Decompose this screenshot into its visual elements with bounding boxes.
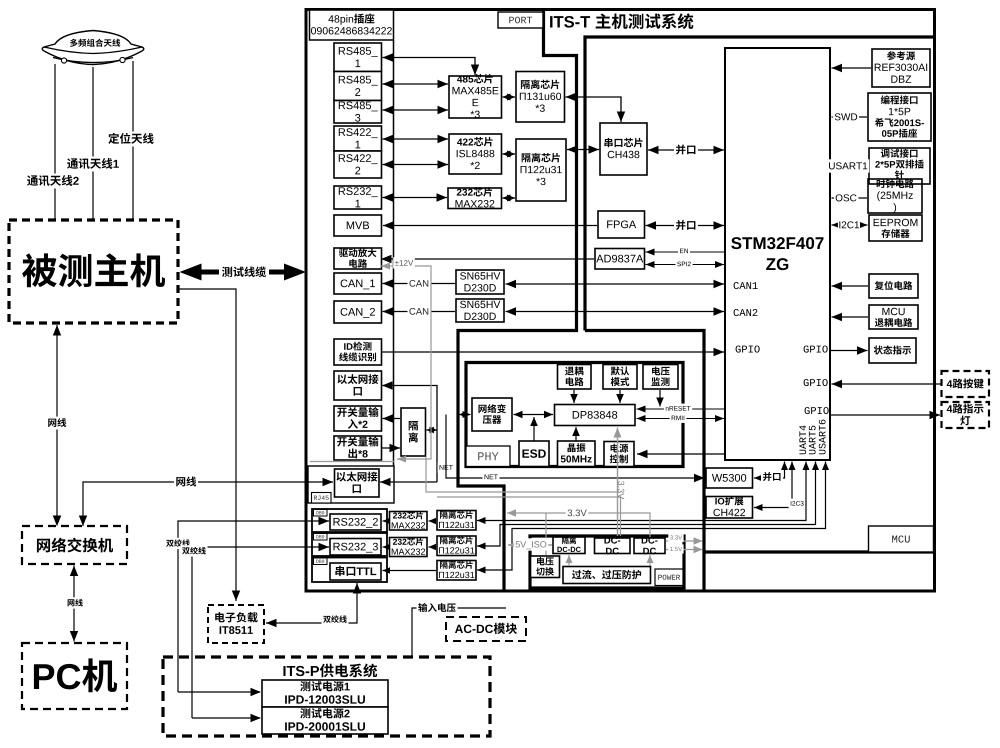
wire RS485_2 to MAX485E: [383, 80, 449, 88]
AD9837A: [595, 249, 645, 270]
multi-band antenna 多频组合天线: [42, 31, 144, 65]
wire MAX232 to isolation2: [503, 195, 516, 202]
wire host to switch 网线: [53, 325, 61, 525]
gray dcdc out 1.5V: [666, 546, 703, 553]
CAN transceiver 2 SN65HVD230D: [456, 299, 504, 322]
wire ethernet2 NET: [380, 478, 437, 486]
label 并口 W5300: [761, 471, 783, 484]
antenna lead 2: [92, 67, 94, 219]
label 通讯天线1: [65, 157, 120, 172]
wire NET to isolation block: [427, 427, 438, 433]
voltage monitor 电压监测: [643, 365, 678, 390]
isolation chip 1 П131u60: [516, 72, 565, 123]
wire CAN1 SN65 to STM32: [506, 280, 725, 288]
network transformer 网络变压器: [472, 398, 512, 431]
antenna lead 3: [132, 61, 134, 219]
power section: [530, 536, 684, 588]
label SWD: [833, 110, 859, 123]
programming port 编程接口: [868, 93, 931, 141]
mcu section: [585, 37, 934, 591]
PORT tag: [498, 12, 543, 28]
label NET 2: [483, 472, 500, 482]
title step: [458, 10, 577, 592]
test power supply 1 IPD-12003SLU: [262, 680, 388, 707]
clock circuit 25MHz: [868, 179, 922, 213]
reset circuit 复位电路: [869, 274, 918, 298]
wire CAN_2 to SN65 2: [383, 307, 456, 316]
PHY chip DP83848: [555, 405, 636, 426]
label nRESET: [664, 404, 692, 414]
wire twisted pair to RS232_2: [178, 517, 329, 692]
label 网线 horizontal: [174, 475, 198, 489]
test power supply 2 IPD-20001SLU: [262, 707, 388, 734]
MCU decoupling 退耦电路: [869, 305, 918, 329]
label OSC: [834, 191, 859, 204]
isolation chip П122u31 a: [437, 511, 476, 531]
wire isolation to switch input: [383, 414, 401, 423]
wire STM32 to power control: [637, 450, 725, 458]
label EN: [678, 246, 690, 256]
wire host to electronic load: [178, 289, 240, 601]
arrow into test supply 1: [178, 691, 260, 693]
MCU STM32F407ZG: [725, 48, 830, 460]
wire isolation chips b to MAX232 b: [429, 544, 437, 550]
gray 5V_ISO: [508, 541, 552, 549]
RJ45 compartment: [308, 466, 394, 503]
DC-DC converter 1: [595, 537, 631, 554]
232 chip MAX232: [448, 187, 502, 208]
wire ID detect GPIO to STM32: [382, 348, 724, 356]
wire MAX232 b to RS232_3: [383, 544, 391, 550]
PC text: [34, 658, 117, 692]
label I2C1: [838, 219, 860, 230]
PC 机 dashed: [22, 643, 127, 709]
arrow into network switch from host: [53, 516, 61, 527]
wire GPIO from keys: [832, 380, 941, 388]
pin label GPIO left: [736, 345, 760, 352]
RS232_3 compartment: [312, 533, 387, 556]
pin label CAN1: [734, 282, 758, 289]
485 chip MAX485E: [449, 74, 502, 118]
label +-12V: [393, 257, 415, 268]
network switch text: [37, 538, 113, 553]
serial chip CH438: [600, 123, 647, 175]
wire IO expander I2C3: [754, 462, 796, 512]
wire RS485_3 to MAX485E: [383, 106, 449, 114]
wire decoupling to DP: [570, 390, 578, 403]
arrow into test supply 2: [192, 717, 260, 719]
port RS485_2: [334, 72, 382, 101]
232 chip MAX232 lower 2: [390, 537, 428, 556]
DB9 tag 2: [314, 534, 328, 541]
DC-DC converter 2: [634, 537, 665, 554]
wire switch to PC 网线: [70, 566, 78, 642]
label 通讯天线2: [25, 174, 80, 189]
wire ESD up: [530, 417, 538, 441]
overcurrent protection 过流、过压防护: [563, 567, 651, 584]
pin label UART4: [799, 426, 806, 455]
gray feed 1: [426, 457, 617, 492]
wire LAN to ethernet2 网线: [79, 478, 333, 526]
wire ISL8488 to isolation2: [503, 151, 516, 158]
label USART1: [827, 159, 870, 172]
switch input 开关量输入*2: [334, 406, 382, 431]
wire SPI2: [646, 261, 725, 268]
label 双绞线 3: [322, 614, 349, 625]
ethernet port 1 以太网接口: [334, 371, 382, 400]
wire reset to STM32: [832, 282, 869, 290]
wire USART1 debug port: [831, 165, 868, 167]
serial TTL compartment: [312, 558, 387, 583]
gray feed 2: [437, 497, 621, 536]
wire RS422_2 to ISL8488: [383, 160, 449, 169]
gray 3.3V rail: [507, 509, 650, 537]
wire crystal to DP: [572, 427, 580, 441]
wire isolation chips a to MAX232 a: [429, 518, 437, 524]
crystal 晶振 50MHz: [558, 441, 596, 467]
power control 电源控制: [604, 442, 634, 467]
422 chip ISL8488: [449, 134, 502, 174]
wire NET to W5300: [446, 415, 705, 483]
wire default mode to DP: [616, 390, 624, 403]
isolated DC-DC 隔离DC-DC: [553, 537, 585, 554]
title text ITS-T 主机测试系统: [550, 13, 693, 29]
wire twisted pair to RS232_3: [192, 543, 329, 718]
wire RS232_1 to MAX232: [383, 193, 448, 202]
label RMII: [670, 413, 687, 423]
port CAN_2: [334, 301, 382, 323]
wire RS485_1 to MAX485E: [383, 53, 480, 75]
wire CAN2 SN65 to STM32: [506, 307, 725, 316]
48pin column divider: [393, 40, 395, 466]
label 网线 vertical wire: [46, 417, 68, 430]
RJ45 tag: [312, 493, 332, 504]
driver amplifier 驱动放大电路: [334, 248, 382, 269]
wire EN from STM32 to AD9837A: [646, 249, 726, 256]
wire isolation2 to CH438: [567, 145, 599, 154]
W5300 ethernet chip: [706, 468, 753, 488]
POWER tag: [655, 569, 683, 586]
port 串口TTL: [330, 563, 381, 580]
isolation chip П122u31 b: [437, 536, 476, 556]
wire AD9837A to driver: [381, 255, 594, 263]
wire GPIO to status: [831, 346, 868, 355]
label 并口 CH438: [674, 143, 698, 157]
default mode 默认模式: [603, 365, 637, 390]
48pin socket header: [310, 10, 394, 40]
IO expander CH422: [706, 496, 753, 518]
wire section edge to transformer: [459, 411, 471, 418]
wire GPIO to lamps: [831, 411, 940, 419]
reference source REF3030AIDBZ: [872, 49, 930, 87]
DUT host text 被测主机: [22, 253, 165, 287]
port RS485_1: [334, 43, 382, 72]
wire I2C1 EEPROM: [832, 221, 868, 229]
wire RS422_1 to ISL8488: [383, 135, 449, 143]
port RS232_2: [330, 514, 381, 530]
network switch 网络交换机 dashed: [22, 526, 127, 564]
wire input voltage: [412, 608, 506, 657]
wire UART4: [477, 462, 810, 525]
gray to voltage switch: [545, 513, 547, 555]
switch output 开关量输出*8: [334, 436, 382, 460]
pin label USART6: [819, 420, 826, 455]
wire isolation1 to CH438: [566, 93, 626, 122]
electronic load 电子负载 IT8511 dashed: [208, 605, 264, 643]
port RS422_1: [334, 126, 382, 151]
label 3.3V rail: [566, 507, 589, 520]
port RS232_1: [334, 186, 382, 209]
label 双绞线 1: [165, 538, 192, 549]
wire MCU decoupling to STM32: [832, 313, 869, 321]
wire isolation chip c to TTL: [383, 567, 437, 574]
FPGA: [598, 211, 645, 238]
gray protection to isolated dcdc: [566, 555, 573, 566]
voltage switch 电压切换: [531, 556, 560, 578]
port RS422_2: [334, 151, 382, 178]
ESD protection: [519, 441, 549, 467]
phy section: [466, 363, 683, 467]
pin label GPIO right 2: [804, 379, 828, 386]
AC-DC module dashed: [446, 617, 526, 641]
label 输入电压: [417, 602, 458, 615]
wire OSC clock: [832, 194, 868, 202]
wire switch output to isolation: [382, 444, 400, 452]
gray protection to dcdc2: [647, 555, 654, 566]
wire MAX485E to isolation1: [503, 94, 516, 101]
ITS-P power system dashed: [163, 657, 490, 736]
label CAN 1: [408, 277, 431, 290]
pin label UART5: [809, 426, 816, 455]
wire USART6: [477, 462, 829, 574]
label 网线 switch-PC: [66, 597, 85, 608]
RS232_2 compartment: [312, 509, 387, 532]
DB9 tag 3: [314, 558, 328, 565]
wire W5300 parallel to STM32: [754, 462, 788, 482]
debug port 调试接口: [869, 148, 930, 184]
label 5V_ISO: [514, 538, 549, 550]
4-way indicator 4路指示灯 dashed: [942, 402, 990, 428]
antenna lead 1: [54, 64, 56, 219]
isolation chip П122u31 c: [437, 561, 476, 581]
isolation block 隔离: [401, 408, 426, 456]
isolation chip 2 П122u31: [516, 139, 566, 201]
PHY tag: [466, 446, 510, 467]
232 chip MAX232 lower 1: [390, 511, 428, 530]
STM32F407ZG label: [731, 237, 823, 270]
label out 3.3V: [668, 533, 683, 542]
wire vmonitor down: [656, 390, 664, 407]
outer frame ITS-T test system box: [306, 10, 935, 592]
wire FPGA parallel port to STM32: [646, 221, 725, 230]
label 并口 FPGA: [674, 219, 698, 233]
label CAN 2: [408, 305, 431, 318]
status indicator 状态指示: [869, 338, 916, 363]
label 3.3V vertical: [618, 481, 624, 499]
label 定位天线: [107, 132, 156, 147]
gray dcdc out 3.3V: [666, 537, 703, 545]
wire UART5: [477, 462, 819, 550]
MCU tag: [869, 526, 934, 552]
pin label GPIO right 1: [804, 345, 828, 352]
pin label GPIO right 3: [805, 407, 829, 414]
wire FPGA to MVB: [383, 221, 597, 230]
wire transformer to DP: [514, 411, 554, 418]
EEPROM memory: [869, 215, 922, 241]
gray 3.3V to DP83848: [614, 428, 622, 537]
gray wire +-12V: [381, 263, 431, 463]
decoupling 退耦电路: [558, 365, 592, 390]
port RS485_3: [334, 101, 382, 124]
port MVB: [334, 215, 382, 236]
port RS232_3: [330, 539, 381, 556]
wire CAN_1 to SN65 1: [383, 279, 456, 288]
ethernet port 2 以太网接口: [335, 469, 380, 497]
4-way keys 4路按键 dashed: [942, 371, 990, 397]
wire CH438 parallel port to STM32: [648, 146, 724, 154]
wire ethernet1 NET: [382, 381, 437, 482]
gray wire return line: [310, 461, 394, 463]
port CAN_1: [334, 273, 382, 294]
wire nRESET: [637, 406, 725, 413]
pin label CAN2: [734, 309, 758, 316]
wire SWD: [832, 113, 868, 121]
label NET 1: [438, 462, 455, 472]
test cable thick arrow 测试线缆: [180, 264, 307, 281]
CAN transceiver 1 SN65HVD230D: [456, 270, 504, 294]
label I2C3: [789, 499, 806, 509]
wire RMII: [637, 415, 725, 422]
label 双绞线 2: [181, 545, 208, 556]
label SPI2: [676, 259, 693, 269]
ITS-P title text: [283, 664, 377, 678]
wire MAX232 a to RS232_2: [383, 518, 391, 524]
wire electronic load to TTL: [266, 583, 361, 627]
wire ref source to STM32: [832, 64, 872, 72]
DUT host 被测主机 dashed: [9, 220, 178, 323]
label out 1.5V: [668, 544, 683, 553]
DB9 tag 1: [314, 510, 328, 517]
ID detect 线缆识别: [334, 339, 382, 365]
